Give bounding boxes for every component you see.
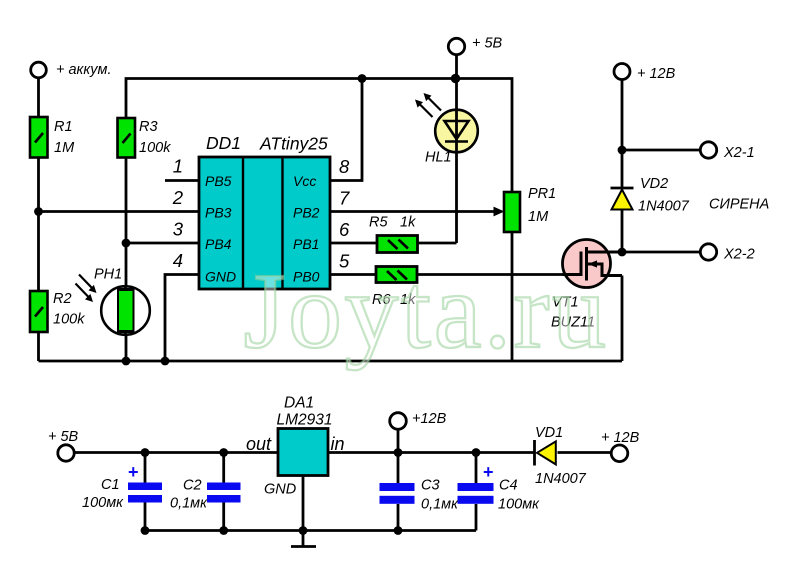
svg-text:100мк: 100мк <box>498 497 540 513</box>
svg-text:PB5: PB5 <box>205 173 232 189</box>
svg-text:+ 12В: + 12В <box>601 430 640 446</box>
svg-text:4: 4 <box>173 250 183 271</box>
svg-text:3: 3 <box>173 219 184 240</box>
svg-text:+ 5В: + 5В <box>48 429 79 445</box>
svg-text:СИРЕНА: СИРЕНА <box>709 197 769 213</box>
svg-text:+ 12В: + 12В <box>637 66 676 82</box>
svg-text:7: 7 <box>339 188 350 209</box>
svg-text:100k: 100k <box>53 312 85 328</box>
svg-text:1M: 1M <box>54 140 75 156</box>
svg-text:R2: R2 <box>53 291 72 307</box>
svg-text:+: + <box>128 462 139 482</box>
svg-text:C2: C2 <box>183 478 202 494</box>
svg-text:R5: R5 <box>369 215 388 231</box>
svg-text:0,1мк: 0,1мк <box>170 496 208 512</box>
svg-text:1M: 1M <box>528 209 549 225</box>
svg-text:8: 8 <box>339 156 350 177</box>
svg-text:VD1: VD1 <box>535 425 563 441</box>
svg-text:X2-2: X2-2 <box>723 247 755 263</box>
svg-text:ATtiny25: ATtiny25 <box>259 134 328 154</box>
svg-text:Vcc: Vcc <box>293 173 316 189</box>
svg-text:out: out <box>246 434 272 454</box>
svg-text:Joyta.ru: Joyta.ru <box>244 252 609 371</box>
svg-text:2: 2 <box>172 187 184 208</box>
svg-text:PB4: PB4 <box>205 236 232 252</box>
svg-text:+12В: +12В <box>412 411 447 427</box>
svg-text:C1: C1 <box>101 477 120 493</box>
svg-text:1: 1 <box>173 156 183 177</box>
svg-text:PR1: PR1 <box>528 186 556 202</box>
svg-text:C3: C3 <box>421 478 440 494</box>
svg-text:DD1: DD1 <box>206 133 241 153</box>
svg-text:0,1мк: 0,1мк <box>421 497 459 513</box>
svg-text:GND: GND <box>205 269 236 285</box>
svg-text:VD2: VD2 <box>640 176 668 192</box>
svg-text:C4: C4 <box>499 478 518 494</box>
svg-text:GND: GND <box>264 482 296 498</box>
svg-text:PH1: PH1 <box>94 267 122 283</box>
svg-text:X2-1: X2-1 <box>723 145 755 161</box>
svg-text:DA1: DA1 <box>284 395 314 412</box>
svg-text:1k: 1k <box>400 215 416 231</box>
svg-text:R3: R3 <box>139 119 158 135</box>
svg-text:6: 6 <box>339 219 350 240</box>
svg-text:R1: R1 <box>54 119 73 135</box>
svg-text:HL1: HL1 <box>425 150 452 166</box>
svg-text:LM2931: LM2931 <box>277 412 333 429</box>
svg-text:1N4007: 1N4007 <box>638 199 690 215</box>
svg-text:+ аккум.: + аккум. <box>56 62 111 78</box>
svg-text:100k: 100k <box>139 140 171 156</box>
svg-text:1N4007: 1N4007 <box>535 471 587 487</box>
svg-text:+ 5В: + 5В <box>472 36 503 52</box>
svg-text:in: in <box>331 434 345 454</box>
svg-text:PB3: PB3 <box>205 205 232 221</box>
svg-text:PB2: PB2 <box>293 205 320 221</box>
svg-text:+: + <box>483 462 494 482</box>
svg-text:100мк: 100мк <box>82 495 124 511</box>
svg-text:PB1: PB1 <box>293 236 319 252</box>
